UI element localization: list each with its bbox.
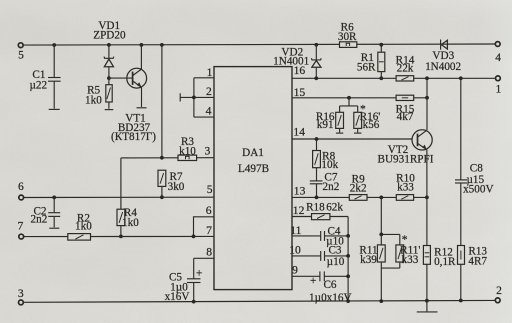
wire pin 11 xyxy=(292,235,321,237)
pin 5 label xyxy=(207,183,213,196)
capacitor C3 u10 xyxy=(321,245,348,268)
wire pin 12 net xyxy=(292,216,348,218)
terminal 5 xyxy=(18,43,24,62)
resistor R2 1k0 xyxy=(68,212,92,240)
diode VD3 1N4002 xyxy=(425,40,461,73)
node R13 / bottom rail xyxy=(459,299,463,303)
node VD1 / top rail xyxy=(107,43,111,47)
wire R15 to VT2 collector xyxy=(426,78,428,130)
wire pin 13 net xyxy=(292,196,427,198)
wire R16 pair bracket xyxy=(340,98,358,113)
wire top supply rail xyxy=(23,44,495,45)
node R11 / bottom rail xyxy=(379,299,383,303)
node R15 / collector branch xyxy=(425,96,429,100)
zener diode VD2 1N4001 xyxy=(273,45,321,79)
wire pin 15 net xyxy=(292,97,427,99)
wire C8 R13 branch xyxy=(460,78,462,300)
resistor R1 56R xyxy=(357,45,385,79)
pin 4 label xyxy=(206,104,212,117)
wire pin 3 net xyxy=(121,157,214,159)
node R8 / pin14 xyxy=(315,137,319,141)
pin 13 label xyxy=(294,184,306,197)
node pin16 / C8 branch xyxy=(459,76,463,80)
IC DA1 L497B xyxy=(214,67,292,290)
resistor R13 4R7 xyxy=(458,245,488,267)
wire R4 top branch xyxy=(120,158,122,209)
pin 1 label xyxy=(207,66,213,79)
terminal 2 xyxy=(495,284,502,303)
node C5 / bottom rail xyxy=(192,300,196,304)
node VD2 / pin16 net xyxy=(314,76,318,80)
resistor R4 1k0 xyxy=(117,207,139,236)
wire pin 2 stub with end bar xyxy=(180,93,214,101)
node branch / bottom rail xyxy=(346,299,350,303)
resistor R11' k33 xyxy=(396,244,421,265)
wire terminal 7 to pin 7 xyxy=(24,235,215,237)
node C1 / top rail xyxy=(52,43,56,47)
ground symbol xyxy=(417,301,438,312)
pin 9 label xyxy=(292,264,298,277)
pin 11 label xyxy=(290,224,301,237)
wire pin 6 bracket xyxy=(194,217,215,237)
wire R7 branch from rail xyxy=(161,45,163,158)
wire pin 1 xyxy=(194,77,214,79)
capacitor C8 u15 x500V xyxy=(455,162,494,195)
node R11 branch / pin13 xyxy=(379,196,383,200)
node R7 / pin5 net xyxy=(160,195,164,199)
node R1 / pin16 net xyxy=(379,76,383,80)
capacitor C7 2n2 xyxy=(310,171,339,197)
pin 10 label xyxy=(289,244,301,257)
pin 8 label xyxy=(206,245,212,258)
wire pin 16 net xyxy=(292,77,496,79)
capacitor C6 1u0x16V xyxy=(309,271,352,303)
wire pin 10 xyxy=(292,255,321,257)
wire pin 4 xyxy=(194,116,214,118)
wire VT2 emitter xyxy=(426,150,428,198)
pin 7 label xyxy=(206,224,212,237)
resistor R16' k56 xyxy=(354,111,381,133)
node R11 bracket xyxy=(379,233,383,237)
node C4 / branch xyxy=(346,234,350,238)
pin 6 label xyxy=(206,204,212,217)
wire R11 pair bottom bracket xyxy=(381,262,400,301)
node C6 / branch xyxy=(346,274,350,278)
node R16 bracket / pin15 xyxy=(347,96,351,100)
wire VT1 base xyxy=(109,77,133,79)
pin 3 label xyxy=(205,145,211,158)
wire bottom common rail xyxy=(23,300,495,302)
terminal 4 xyxy=(495,42,501,65)
resistor R15 4k7 xyxy=(396,95,415,123)
node R4 / pin7 net xyxy=(119,235,123,239)
wire pin 9 xyxy=(292,275,320,277)
resistor R12 0,1R xyxy=(423,197,456,300)
resistor R7 3k0 xyxy=(158,170,185,197)
zener diode VD1 ZPD20 xyxy=(93,20,126,78)
wire soft-start branch vertical xyxy=(347,217,349,302)
resistor R9 2k2 xyxy=(349,173,367,200)
capacitor C2 2n2 xyxy=(31,197,61,228)
transistor VT2 BU931RPFI xyxy=(378,130,434,166)
terminal 3 xyxy=(18,287,24,305)
capacitor C4 u10 xyxy=(321,225,348,247)
wire pins 1-2-4 bracket xyxy=(193,78,195,117)
pin 2 label xyxy=(206,85,212,98)
resistor R3 k10 xyxy=(178,136,197,160)
resistor R8 10k xyxy=(313,139,339,181)
wire pin 8 xyxy=(194,257,214,259)
capacitor C1 xyxy=(29,45,60,109)
node C2 / pin5 net xyxy=(52,196,56,200)
resistor R11 k39 xyxy=(359,244,385,265)
pin 12 label xyxy=(293,204,305,217)
terminal 6 xyxy=(18,180,24,200)
resistor R10 k33 xyxy=(396,173,415,201)
node VD1 / R5 / VT1 base xyxy=(107,76,111,80)
select-on-test star R11' xyxy=(402,233,408,246)
node VT2 emitter / R12 branch xyxy=(425,196,429,200)
wire R11 pair top bracket xyxy=(381,197,400,245)
node R3 / R7 junction xyxy=(160,156,164,160)
terminal 1 xyxy=(496,76,502,95)
node VT1 collector / top rail xyxy=(140,43,144,47)
node C3 / branch xyxy=(346,254,350,258)
resistor R14 22k xyxy=(396,55,415,81)
resistor R5 1k0 xyxy=(85,78,113,110)
node C7 / pin13 xyxy=(315,196,319,200)
node pin6 bracket / pin7 net xyxy=(192,235,196,239)
node R12 / bottom rail xyxy=(425,299,429,303)
resistor R18 62k xyxy=(306,202,343,220)
resistor R6 30R xyxy=(338,22,357,48)
select-on-test star R16' xyxy=(360,103,366,116)
node R7 branch / top rail xyxy=(160,43,164,47)
node R1 / top rail xyxy=(379,43,383,47)
wire terminal 6 to pin 5 xyxy=(24,196,215,198)
pin 16 label xyxy=(294,64,306,77)
resistor R16 k91 xyxy=(316,111,344,133)
capacitor C5 1u0 x16V xyxy=(165,258,203,303)
terminal 7 xyxy=(18,220,24,239)
wire pin 14 net xyxy=(292,138,412,140)
node pin 2 / bracket xyxy=(192,96,196,100)
pin 14 label xyxy=(293,126,305,139)
node pin16 / R15 branch xyxy=(425,76,429,80)
transistor VT1 BD237 xyxy=(111,45,156,143)
pin 15 label xyxy=(294,86,306,99)
node VD2 / top rail xyxy=(314,43,318,47)
